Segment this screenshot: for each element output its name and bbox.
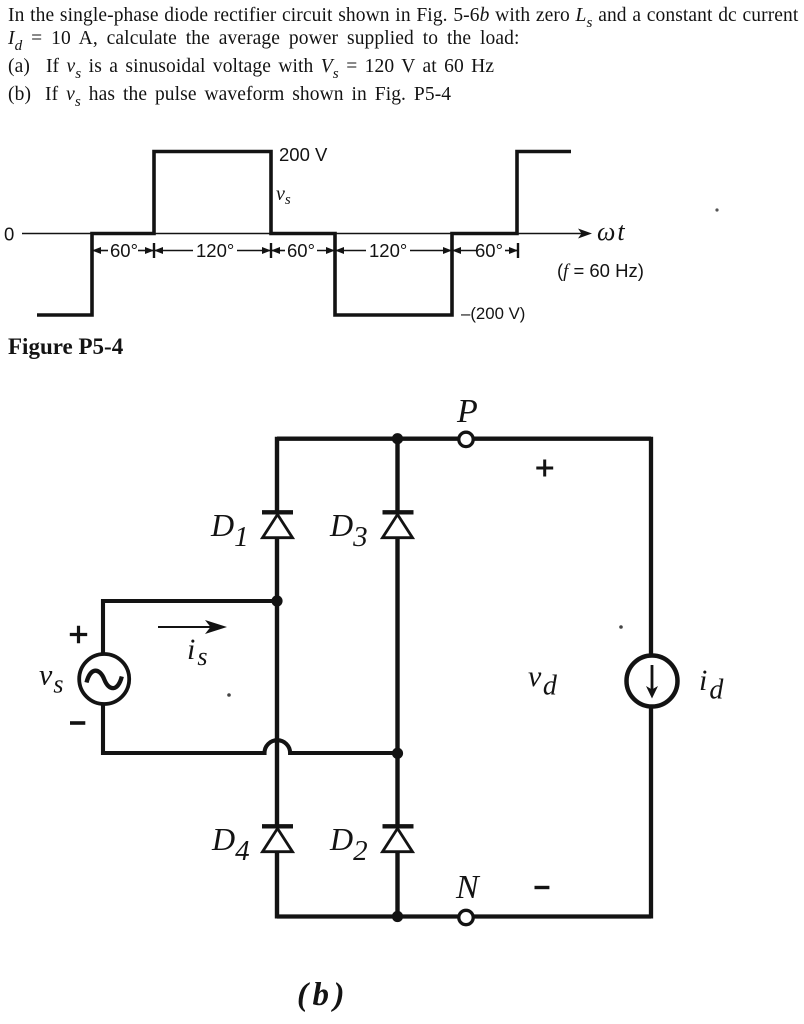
scan speck 1: [715, 208, 718, 211]
node P terminal: [459, 432, 473, 446]
svg-text:id: id: [699, 664, 724, 706]
svg-text:–(200 V): –(200 V): [461, 304, 525, 323]
svg-text:0: 0: [4, 224, 14, 245]
svg-text:60°: 60°: [287, 240, 315, 261]
node N terminal: [459, 910, 473, 924]
svg-text:is: is: [187, 633, 207, 671]
svg-text:120°: 120°: [196, 240, 234, 261]
load minus sign: [535, 886, 550, 889]
figure caption: [8, 334, 123, 360]
svg-text:N: N: [455, 869, 481, 906]
scan speck 3: [227, 693, 231, 697]
wire: right bridge leg: [395, 437, 399, 511]
node: bridge top junction: [392, 433, 403, 444]
dimension ticks: [92, 243, 518, 258]
svg-text:vd: vd: [528, 660, 558, 702]
svg-text:(f = 60 Hz): (f = 60 Hz): [557, 260, 644, 282]
scan speck 2: [619, 625, 623, 629]
node: bridge bottom junction: [392, 911, 403, 922]
dimension 60deg #1: [92, 247, 154, 254]
svg-text:(b): (b): [297, 977, 349, 1013]
paragraph line 4: [8, 84, 451, 106]
svg-text:60°: 60°: [475, 240, 503, 261]
diode D4: [262, 826, 293, 851]
wire: left bridge leg: [275, 437, 279, 511]
svg-text:200 V: 200 V: [279, 144, 328, 165]
diode D2: [383, 826, 414, 851]
load plus sign: [536, 460, 553, 477]
svg-text:60°: 60°: [110, 240, 138, 261]
source minus sign: [70, 721, 85, 725]
ac source vs: [79, 654, 129, 704]
waveform axis (omega-t axis): [22, 233, 583, 235]
svg-text:D3: D3: [329, 507, 368, 553]
node: source/right-leg junction: [392, 748, 403, 759]
wire: right load branch: [649, 437, 653, 656]
dimension 120deg #2: [335, 247, 452, 254]
wire: top bus from bridge to load: [277, 437, 651, 441]
svg-text:D4: D4: [211, 821, 250, 867]
paragraph line 1: [8, 5, 798, 27]
svg-text:D2: D2: [329, 821, 368, 867]
wire: source bottom lead with crossover hump: [103, 703, 398, 753]
svg-text:P: P: [456, 393, 478, 430]
current source id: [627, 656, 678, 707]
paragraph line 3: [8, 56, 494, 78]
svg-text:vs: vs: [39, 659, 63, 699]
wire: bottom bus from bridge to load: [277, 914, 651, 918]
waveform trace vs: [37, 152, 571, 316]
node: source/left-leg junction: [271, 595, 282, 606]
wire: source top lead: [103, 601, 277, 655]
svg-text:vs: vs: [276, 183, 291, 208]
svg-text:120°: 120°: [369, 240, 407, 261]
diode D3: [383, 512, 414, 537]
dimension 60deg #2: [271, 247, 335, 254]
diode D1: [262, 512, 293, 537]
svg-text:D1: D1: [210, 507, 249, 553]
svg-text:ωt: ωt: [597, 217, 627, 246]
source plus sign: [70, 626, 87, 643]
dimension 60deg #3: [452, 247, 518, 254]
dimension 120deg #1: [154, 247, 271, 254]
paragraph line 2: [8, 28, 520, 50]
arrow is: [158, 620, 227, 634]
axis arrowhead: [578, 229, 592, 239]
